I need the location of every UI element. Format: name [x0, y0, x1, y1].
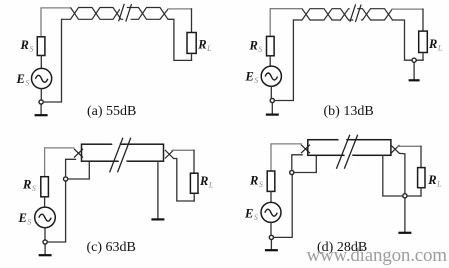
- wire pair to RL bottom (a): [168, 19, 191, 60]
- wire inner node to shield (d): [294, 155, 316, 172]
- svg-text:(a) 55dB: (a) 55dB: [87, 104, 136, 119]
- source ES (b): [261, 66, 281, 86]
- twisted pair cable (b): [302, 9, 393, 20]
- wire RS to source (d): [270, 191, 272, 202]
- resistor RL (d): [418, 168, 425, 188]
- svg-text:(c) 63dB: (c) 63dB: [87, 240, 136, 255]
- twisted pair cable (a): [71, 8, 169, 20]
- inner node dot (c): [64, 177, 68, 181]
- wire source to node (c): [44, 228, 46, 240]
- node dot (c): [43, 240, 47, 244]
- ground left (b): [271, 103, 273, 114]
- svg-text:www.diangon.com: www.diangon.com: [307, 245, 448, 266]
- wire RS to source (c): [44, 197, 46, 207]
- wire inner node to conductor X (d): [292, 155, 302, 171]
- resistor RS (d): [267, 171, 275, 191]
- wire X down to bottom node (d): [399, 153, 405, 193]
- ground right (d): [404, 198, 406, 232]
- wire source to node (b): [270, 86, 272, 98]
- cable break (c): [110, 136, 130, 174]
- source ES (a): [31, 68, 51, 88]
- wire node to inner node (c): [47, 181, 65, 242]
- conductor crossing X right (d): [391, 145, 400, 153]
- svg-text:(b) 13dB: (b) 13dB: [324, 104, 374, 119]
- wire: source rail top, circuit b: [270, 9, 302, 37]
- shield rectangle (c): [82, 144, 164, 161]
- wire source to node (a): [40, 89, 42, 100]
- wire: source rail top, circuit d: [271, 144, 301, 172]
- wire X to RL top (d): [398, 145, 421, 147]
- cable break (b): [348, 1, 363, 27]
- wire node to pair return (b): [274, 20, 293, 101]
- wire pair to RL top (a): [168, 8, 191, 10]
- cable break (a): [118, 1, 133, 27]
- ground left (d): [270, 240, 272, 250]
- wire RS to source (b): [269, 56, 271, 66]
- wire node to inner node (d): [274, 175, 293, 238]
- conductor crossing X right (c): [165, 150, 174, 159]
- shield ground wire (c): [157, 161, 159, 218]
- wire X to RL top (c): [172, 149, 194, 151]
- wire source to node (d): [270, 222, 272, 235]
- inner node dot (d): [290, 170, 294, 174]
- source ES (d): [261, 202, 281, 222]
- resistor RS (b): [267, 36, 275, 55]
- shield rectangle (d): [308, 140, 391, 156]
- wire shield to bottom rail (d): [383, 155, 421, 196]
- bottom node dot (d): [403, 194, 407, 198]
- wire X to RL bottom (c): [174, 159, 195, 202]
- ground right (b): [413, 62, 415, 79]
- wire: source rail top, circuit a: [41, 8, 71, 38]
- wire pair to RL top (b): [393, 8, 424, 10]
- node dot right (b): [412, 58, 416, 62]
- ground left (c): [44, 244, 46, 254]
- conductor crossing X left (c): [74, 149, 83, 158]
- wire RS to source (a): [40, 56, 42, 69]
- resistor RS (a): [37, 37, 45, 56]
- node dot (a): [39, 100, 43, 104]
- wire pair to RL bottom (b): [393, 20, 424, 60]
- resistor RL (c): [190, 173, 198, 193]
- node dot (d): [269, 235, 273, 239]
- source ES (c): [35, 207, 56, 228]
- resistor RL (a): [187, 33, 196, 54]
- ground (a): [40, 104, 42, 114]
- conductor crossing X left (d): [301, 145, 310, 154]
- wire: source rail top, circuit c: [45, 148, 74, 178]
- node dot (b): [270, 98, 274, 102]
- wire inner node to conductor X (c): [66, 159, 76, 177]
- wire node to pair return (a): [43, 19, 61, 102]
- wire inner node to shield (c): [68, 161, 90, 179]
- resistor RS (c): [41, 177, 49, 197]
- cable break (d): [337, 132, 358, 171]
- resistor RL (b): [419, 31, 428, 52]
